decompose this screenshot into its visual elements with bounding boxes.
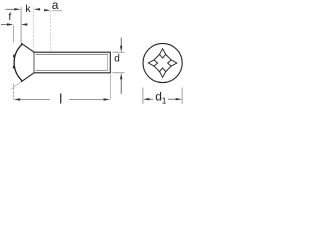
svg-text:a: a	[52, 0, 59, 12]
svg-text:k: k	[25, 3, 31, 15]
svg-text:1: 1	[162, 95, 167, 105]
svg-text:l: l	[59, 91, 62, 106]
svg-text:d: d	[114, 54, 120, 65]
svg-text:f: f	[8, 11, 11, 23]
